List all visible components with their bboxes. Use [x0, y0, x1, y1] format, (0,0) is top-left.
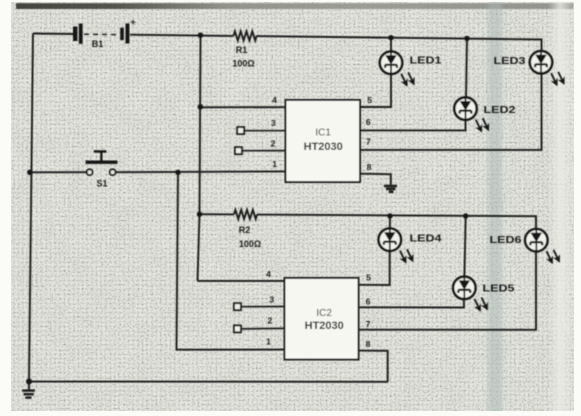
svg-text:3: 3 — [271, 118, 276, 128]
svg-text:4: 4 — [266, 269, 271, 279]
svg-text:2: 2 — [268, 316, 273, 326]
svg-text:LED3: LED3 — [494, 55, 526, 67]
svg-text:6: 6 — [366, 117, 371, 127]
svg-text:1: 1 — [266, 337, 271, 347]
svg-text:2: 2 — [271, 139, 276, 149]
svg-text:7: 7 — [366, 137, 371, 147]
svg-text:B1: B1 — [92, 39, 104, 49]
svg-text:5: 5 — [367, 95, 372, 105]
svg-text:3: 3 — [269, 295, 274, 305]
svg-text:LED6: LED6 — [490, 234, 522, 246]
svg-text:100Ω: 100Ω — [232, 59, 254, 69]
svg-text:S1: S1 — [96, 179, 107, 189]
svg-text:4: 4 — [272, 95, 277, 105]
svg-text:1: 1 — [272, 159, 277, 169]
svg-text:8: 8 — [366, 339, 371, 349]
svg-text:6: 6 — [366, 297, 371, 307]
svg-text:LED5: LED5 — [483, 283, 515, 295]
svg-text:LED1: LED1 — [410, 54, 442, 66]
svg-text:IC1: IC1 — [315, 128, 331, 139]
svg-text:IC2: IC2 — [316, 308, 332, 319]
svg-text:HT2030: HT2030 — [304, 141, 343, 153]
svg-text:8: 8 — [367, 162, 372, 172]
svg-text:100Ω: 100Ω — [239, 239, 261, 249]
svg-text:7: 7 — [366, 319, 371, 329]
svg-text:R2: R2 — [239, 225, 251, 235]
svg-text:LED4: LED4 — [410, 232, 442, 244]
svg-text:HT2030: HT2030 — [305, 320, 344, 332]
svg-text:LED2: LED2 — [484, 104, 516, 116]
svg-text:R1: R1 — [236, 45, 248, 55]
svg-text:5: 5 — [366, 273, 371, 283]
